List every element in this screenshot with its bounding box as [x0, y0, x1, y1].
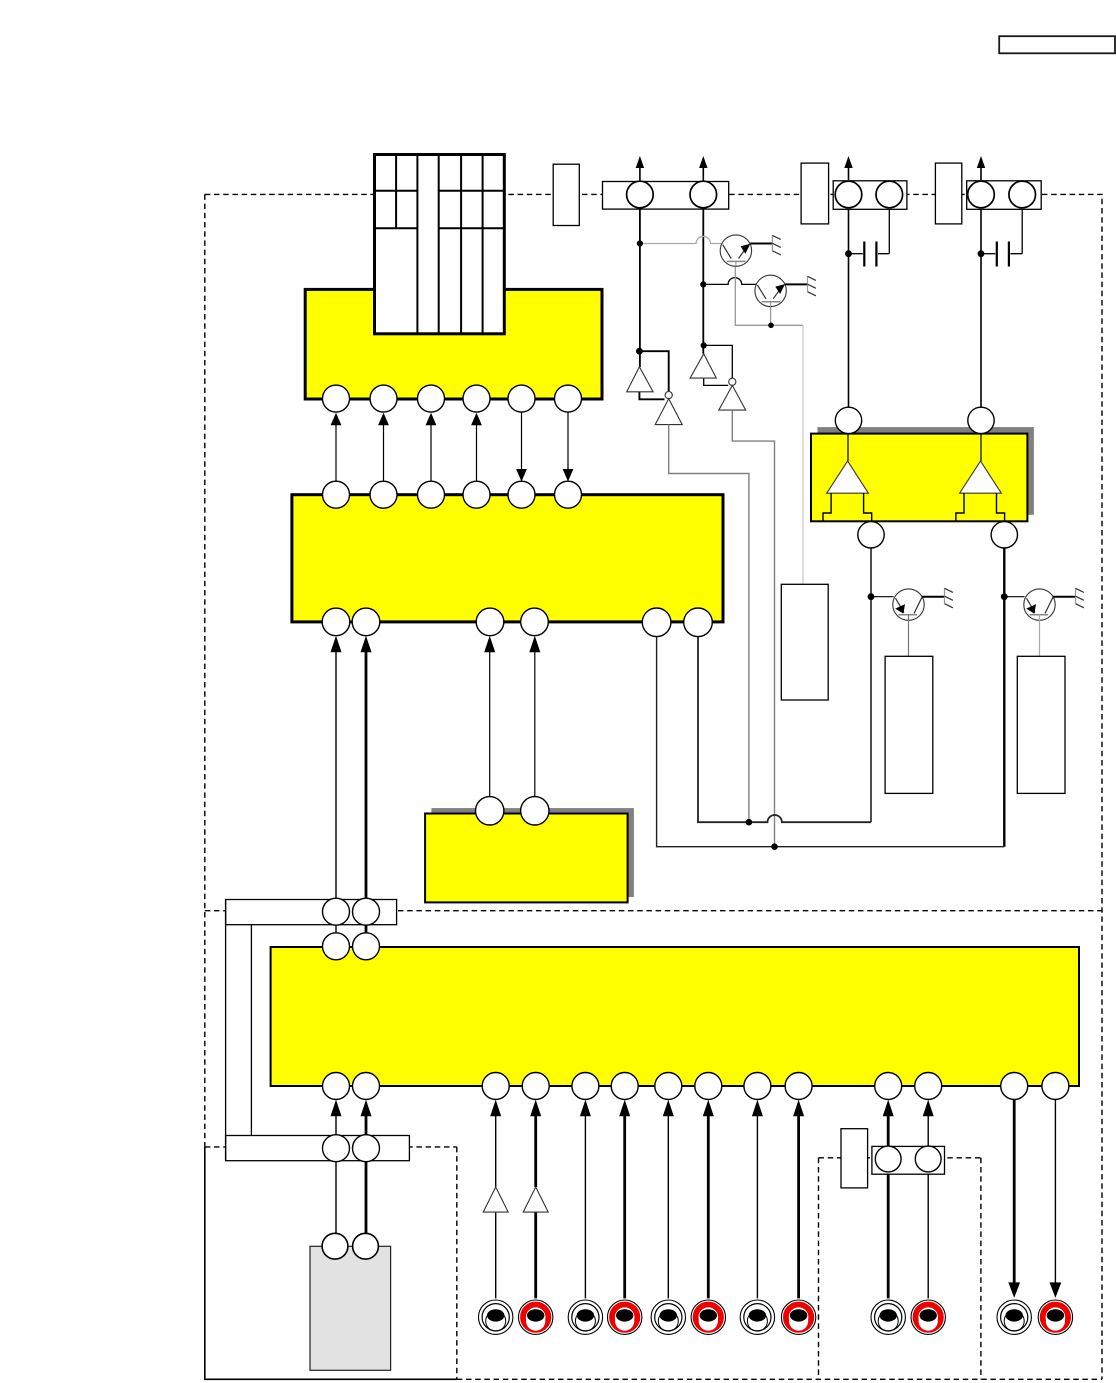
dashed separator net [205, 910, 1102, 912]
IC2 top pins [323, 481, 582, 508]
buffer T2 [523, 1187, 548, 1212]
wire jack 8 [793, 1100, 804, 1299]
CN6 pins [968, 181, 1036, 208]
shield block pin1 [322, 1233, 348, 1259]
IC2 bottom pins [322, 608, 712, 637]
buffer B1 [690, 354, 716, 378]
chassis ground Q1 [750, 235, 781, 255]
resistor block R1 [781, 584, 828, 700]
IC1 digital block [305, 289, 602, 399]
transistor Q3 [893, 589, 924, 620]
wire Q2 emitter [770, 306, 772, 325]
amp element R triangle [960, 461, 1002, 493]
IC4 block [425, 814, 627, 903]
capacitor C2 [981, 209, 1022, 266]
IC1-IC2 bus wire 3 [426, 413, 437, 481]
RCA jack red 5 [911, 1300, 945, 1334]
arrow out CN4 pin1 [636, 156, 644, 181]
wire amp R output [1003, 548, 1005, 847]
inverter B2 [719, 385, 746, 410]
resistor block R2 [885, 656, 933, 793]
ferrite bead FB3 [935, 163, 961, 224]
wire jack 9 through CN7 [883, 1100, 894, 1299]
RCA jack red 1 [519, 1300, 553, 1334]
title label box [999, 36, 1115, 53]
RCA jack red 3 [691, 1300, 725, 1334]
wire IC5 pin to CN3 right [361, 1100, 372, 1135]
amp element L triangle [827, 461, 869, 493]
CN4 pins [627, 181, 717, 208]
wire IC4 to IC2 pin4 [529, 636, 540, 797]
wire CN4.1 to inverter chain A [639, 209, 641, 367]
bottom-middle dashed box [819, 1158, 981, 1380]
CN2 pins [323, 898, 380, 925]
IC1-IC2 bus wire 4 [471, 413, 482, 481]
arrow out CN4 pin2 [699, 156, 707, 181]
shield block pin2 [353, 1233, 379, 1259]
RCA jack white 3 [651, 1300, 685, 1334]
IC1 pins [323, 385, 582, 412]
amp element R pedestal [956, 493, 1005, 521]
wire CN2 to IC2 pin1 [331, 636, 342, 899]
CN3 pins [323, 1135, 380, 1162]
chassis ground Q4 [1053, 588, 1084, 608]
IC1-IC2 bus wire 2 [378, 413, 389, 481]
wire jack 10 through CN7 [923, 1100, 934, 1299]
power amp block IC3 [811, 434, 1027, 522]
wire Q3 base [871, 596, 894, 598]
RCA jack red 4 [781, 1300, 815, 1334]
wire jack 12 down arrow [1050, 1100, 1062, 1298]
wire CN2 to IC5 pin2 [365, 925, 368, 933]
ferrite bead FB2 [801, 163, 829, 224]
amp element L pedestal [823, 493, 872, 521]
capacitor C1 [849, 209, 890, 266]
wire Q1 base with hop [640, 236, 722, 243]
junction dots [636, 240, 1008, 850]
wire R1 feed [802, 325, 804, 584]
wire CN3 to shield block 2 [365, 1162, 368, 1234]
wire IC2 pin to speaker net L with hop [698, 637, 871, 823]
wire IC4 to IC2 pin3 [484, 636, 495, 797]
power amp block shadow [818, 427, 1034, 515]
connector box CN2 [226, 900, 397, 925]
RCA jack white 5 [871, 1300, 905, 1334]
wire jack 4 [619, 1100, 630, 1299]
RCA jack red 6 [1038, 1300, 1072, 1334]
wire chain B output [732, 410, 774, 847]
IC2 main processor block [292, 495, 723, 622]
wire CN5 to amp input L [848, 209, 850, 420]
wire jack 2 with buffer [530, 1100, 541, 1299]
inverter chain A [639, 351, 668, 399]
IC1-IC2 bus wire 1 [331, 413, 342, 481]
CN5 pins [835, 181, 902, 208]
connector box CN5 [833, 181, 907, 210]
wire jack 6 [703, 1100, 714, 1299]
RCA jack white 1 [479, 1300, 513, 1334]
arrow out CN5 pin1 [844, 156, 852, 180]
wire jack 5 [663, 1100, 674, 1299]
wire CN6 to amp input R [980, 209, 982, 420]
IC5 bottom pins [323, 1073, 1069, 1100]
wire jack 7 [752, 1100, 763, 1299]
connector CN7 pin1 [875, 1146, 901, 1172]
connector CN7 bead [841, 1129, 868, 1188]
resistor block R3 [1017, 656, 1065, 793]
amp L input lead [847, 434, 849, 461]
bus wires CN2-CN3 [226, 900, 252, 1161]
RCA jack red 2 [608, 1300, 642, 1334]
connector box CN6 [967, 181, 1041, 210]
connector box CN4 [603, 182, 729, 210]
inverter chain B [704, 345, 733, 385]
inverter B2 bubble [729, 378, 736, 385]
wire IC2 pin to speaker net R [657, 637, 1005, 847]
outer dashed boundary [205, 194, 1102, 1379]
transistor Q4 [1024, 589, 1055, 620]
amp R input lead [980, 434, 982, 461]
transistor Q2 [755, 275, 786, 307]
connector CN7 pin2 [915, 1146, 941, 1172]
bottom-left box dashed edges [205, 1147, 457, 1379]
connector table CN1 [375, 155, 505, 334]
wire Q4 base [1004, 596, 1024, 598]
amp input pins [835, 407, 994, 433]
bottom-left box solid edges [205, 1147, 457, 1379]
connector box CN3 [226, 1136, 410, 1161]
wire jack 3 [580, 1100, 591, 1299]
transistor Q1 [720, 235, 751, 266]
RCA jack white 6 [997, 1300, 1031, 1334]
IC4 block shadow [431, 808, 634, 897]
chassis ground Q2 [785, 276, 816, 296]
wire chain A output [669, 425, 749, 823]
wire CN2 to IC5 pin1 [335, 925, 337, 933]
wire jack 1 with buffer [490, 1100, 501, 1299]
wire jack 11 down arrow [1008, 1100, 1020, 1298]
amp output pins [858, 522, 1018, 548]
wire CN2 to IC2 pin2 [361, 636, 372, 899]
inverter A2 [655, 399, 682, 425]
IC5 jack board block [271, 947, 1079, 1086]
wire Q1 emitter to R1 [735, 264, 803, 325]
RCA jack white 4 [740, 1300, 774, 1334]
IC4 pins [476, 797, 550, 825]
wire CN4.2 to inverter chain B [702, 209, 704, 354]
IC1-IC2 bus wire 6 [563, 412, 574, 481]
RCA jack white 2 [568, 1300, 602, 1334]
IC1-IC2 bus wire 5 [516, 412, 527, 481]
wire Q2 base with hop [703, 278, 756, 285]
shield block [310, 1246, 391, 1370]
wire Q3 collector to R2 [908, 615, 910, 657]
chassis ground Q3 [922, 588, 953, 608]
buffer A1 [627, 367, 653, 392]
wire amp L output [870, 548, 872, 822]
wire Q4 collector to R3 [1039, 615, 1041, 657]
connector CN7 box [872, 1146, 945, 1174]
IC5 top pins [323, 933, 380, 960]
ferrite bead FB1 [553, 164, 579, 225]
wire CN3 to shield block [335, 1162, 337, 1234]
arrow out CN6 pin1 [977, 156, 985, 180]
buffer T1 [483, 1187, 508, 1212]
inverter A2 bubble [665, 392, 672, 399]
wire IC5 pin to CN3 left [331, 1100, 342, 1135]
